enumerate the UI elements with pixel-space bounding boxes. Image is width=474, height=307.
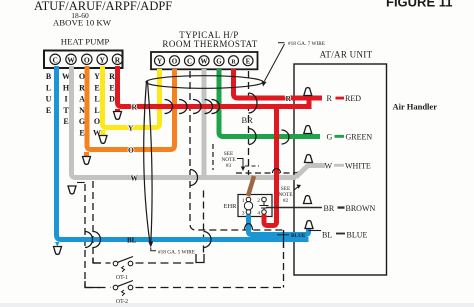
svg-text:L: L <box>94 95 99 104</box>
svg-text:R: R <box>79 83 85 92</box>
svg-text:ROOM THERMOSTAT: ROOM THERMOSTAT <box>162 39 257 49</box>
label #18 GA. 5 WIRE with elbow leader <box>151 248 156 251</box>
svg-text:BL: BL <box>322 230 332 239</box>
svg-text:BLUE: BLUE <box>347 230 368 239</box>
wire: blue from EHR terminal 3 to air handler BL <box>249 215 309 235</box>
connector at blue end <box>54 247 62 255</box>
svg-text:WHITE: WHITE <box>345 161 371 170</box>
dashed OT-2 row wire <box>85 287 111 289</box>
terminal W <box>199 56 209 66</box>
svg-text:3: 3 <box>242 211 245 217</box>
svg-text:O: O <box>172 58 178 66</box>
vertical word WHITE <box>62 72 70 126</box>
svg-text:E: E <box>79 129 84 138</box>
svg-text:2: 2 <box>257 198 260 204</box>
EHR terminal 3 <box>246 210 251 215</box>
dashed bracket for note 3 <box>212 144 214 170</box>
hop arc on green at red branch <box>282 130 290 144</box>
svg-text:E: E <box>109 83 114 92</box>
vertical word YELLOW <box>93 72 101 138</box>
svg-text:E: E <box>246 58 251 66</box>
svg-text:W: W <box>325 161 333 170</box>
solid u-link above OT-1 row <box>196 254 204 263</box>
svg-text:#2: #2 <box>283 198 289 204</box>
svg-text:G: G <box>216 58 222 66</box>
svg-text:R: R <box>109 72 115 81</box>
connector on brown BR row <box>304 196 312 204</box>
svg-text:O: O <box>84 55 90 64</box>
terminal O <box>170 56 180 66</box>
svg-text:Y: Y <box>99 55 105 64</box>
outdoor thermostat OT-1 <box>113 257 133 281</box>
svg-text:Y: Y <box>128 124 134 133</box>
EHR heater element symbol <box>260 202 269 210</box>
svg-text:BR: BR <box>242 115 254 125</box>
wire: red branch down to EHR terminal 4 <box>264 107 277 226</box>
terminal E <box>243 56 253 66</box>
solid corner at OT-2 left <box>85 281 100 288</box>
small dashed segment near note 3 <box>245 165 259 167</box>
dashed field wire from thermostat C <box>190 71 284 230</box>
hop arc of jumper over red branch <box>273 169 281 173</box>
dashed OT-1 row wire <box>93 262 111 264</box>
hop arc of C run over EHR blue riser <box>245 224 253 230</box>
svg-text:E: E <box>63 117 68 126</box>
EHR relay box <box>224 195 273 217</box>
svg-text:R: R <box>132 103 138 112</box>
svg-text:T: T <box>63 106 69 115</box>
thermostat terminal block <box>151 52 258 69</box>
svg-text:H: H <box>63 83 70 92</box>
dashed riser joining OT-2 to C circuit <box>283 230 285 288</box>
svg-text:G: G <box>79 117 85 126</box>
note 2 arrow <box>294 186 300 191</box>
svg-text:O: O <box>94 117 100 126</box>
bundle lens of 5 wires going down <box>144 81 150 243</box>
label #18 GA. 7 WIRE with leader to bundle <box>278 42 285 44</box>
wire: white rise into air handler W <box>296 166 326 178</box>
svg-text:W: W <box>131 174 139 183</box>
svg-text:E: E <box>94 83 99 92</box>
svg-text:R: R <box>231 60 236 66</box>
svg-text:ATUF/ARUF/ARPF/ADPF: ATUF/ARUF/ARPF/ADPF <box>34 0 172 13</box>
svg-text:O: O <box>128 146 134 155</box>
wire: orange from heat pump O to thermostat O <box>87 66 175 150</box>
svg-text:W: W <box>67 55 75 64</box>
svg-text:Air Handler: Air Handler <box>393 102 438 112</box>
heat pump terminal block <box>44 51 123 69</box>
svg-text:R: R <box>115 55 121 64</box>
svg-text:L: L <box>46 83 51 92</box>
hop arc of E wire over green run <box>249 129 257 145</box>
wire: black EHR to BR row <box>266 207 322 209</box>
wire: red stub to connector <box>115 109 120 111</box>
terminal R <box>229 56 239 66</box>
svg-text:BR: BR <box>324 204 335 213</box>
terminal G <box>214 56 224 66</box>
svg-text:C: C <box>187 58 192 66</box>
row label BL - BLUE with leader <box>309 230 322 232</box>
label BLUE printed on blue wire <box>277 234 289 236</box>
svg-text:R: R <box>327 94 333 103</box>
hop arc of C wire over white run <box>190 170 198 186</box>
wire: red from thermostat R to air handler R <box>234 69 323 98</box>
wire: white from thermostat W down <box>202 69 207 176</box>
svg-text:GREEN: GREEN <box>346 133 373 142</box>
terminal C <box>50 54 60 64</box>
svg-text:L: L <box>94 106 99 115</box>
svg-text:O: O <box>79 72 85 81</box>
svg-text:U: U <box>46 95 52 104</box>
svg-text:A: A <box>79 95 85 104</box>
wire: red riser joining R row <box>307 96 312 110</box>
svg-text:#18 GA. 7 WIRE: #18 GA. 7 WIRE <box>288 41 325 47</box>
dashed wire down to OT-1 row <box>92 181 94 263</box>
wire: yellow from heat pump Y to thermostat Y <box>103 66 160 128</box>
hop arc of E wire over red runs <box>249 93 258 113</box>
svg-text:B: B <box>46 72 52 81</box>
svg-text:Y: Y <box>157 58 162 66</box>
svg-text:ABOVE 10 KW: ABOVE 10 KW <box>53 18 112 28</box>
hop arcs over blue bottom run <box>85 232 211 248</box>
wire: orange stub to connector <box>84 152 89 156</box>
dashed wire down from white circuit to OT-1 <box>203 191 205 254</box>
dashed wire down to OT-2 row <box>84 184 86 288</box>
svg-text:EHR: EHR <box>224 203 238 210</box>
note 3 arrow <box>237 159 243 168</box>
svg-text:FIGURE 11: FIGURE 11 <box>386 0 452 10</box>
wire: blue taper to connector <box>55 242 60 247</box>
bracket from white corner to OT-2 dash <box>77 182 85 184</box>
wire: red from heat pump R across to air handler <box>118 66 310 107</box>
svg-text:I: I <box>64 95 67 104</box>
svg-text:R: R <box>286 94 292 103</box>
terminal O <box>82 54 92 64</box>
EHR terminal 4 <box>262 210 267 215</box>
terminal Y <box>97 54 107 64</box>
EHR terminal 2 <box>262 197 267 202</box>
EHR coil <box>244 202 252 210</box>
connector on white W row <box>305 155 313 163</box>
bundle ellipse of 7 thermostat wires <box>146 76 263 89</box>
svg-text:#18 GA. 5 WIRE: #18 GA. 5 WIRE <box>158 249 195 255</box>
wire: brown jumper to EHR terminal 1 <box>248 176 254 196</box>
svg-text:C: C <box>52 55 57 64</box>
wire: green from thermostat G to air handler G <box>219 69 320 137</box>
outdoor thermostat OT-2 <box>113 281 133 305</box>
solid corner at OT-1 left <box>93 258 101 264</box>
terminal W <box>66 54 76 64</box>
EHR terminal 1 <box>246 197 251 202</box>
connector stub below red corner <box>114 112 122 120</box>
connector stub below white corner <box>68 186 76 194</box>
connector on green G row <box>304 126 312 134</box>
terminal Y <box>155 56 165 66</box>
connector on blue BL row <box>305 221 313 229</box>
svg-text:Y: Y <box>94 72 100 81</box>
svg-text:W: W <box>201 58 208 66</box>
terminal C <box>185 56 195 66</box>
svg-text:4: 4 <box>257 211 260 217</box>
terminal R <box>112 54 122 64</box>
vertical word RED <box>109 72 115 104</box>
svg-text:D: D <box>109 95 115 104</box>
vertical word ORANGE <box>79 72 85 138</box>
dashed riser visible over blue run <box>283 230 285 248</box>
connector stub below yellow corner <box>99 136 107 144</box>
wire: yellow stub to connector <box>101 130 106 135</box>
svg-text:1: 1 <box>242 198 245 204</box>
dashed bracket for note 2 <box>277 183 279 203</box>
svg-text:BROWN: BROWN <box>346 204 376 213</box>
svg-text:W: W <box>62 72 70 81</box>
svg-text:BL: BL <box>127 237 137 245</box>
svg-text:E: E <box>46 106 51 115</box>
dashed field wire from thermostat E (brown circuit) <box>248 71 250 175</box>
vertical word BLUE <box>46 72 52 115</box>
svg-text:N: N <box>79 106 85 115</box>
faint scan shadow at bottom edge <box>0 303 474 307</box>
wire: blue from heat pump C along bottom <box>57 66 309 240</box>
svg-text:RED: RED <box>345 94 361 103</box>
connector stub below orange corner <box>83 157 91 165</box>
wire: white from heat pump W down and across <box>72 66 297 178</box>
dashed jumper to W row (note 3 circuit) <box>236 172 294 174</box>
svg-text:BLUE: BLUE <box>291 233 306 239</box>
arrowhead at bundle bottom <box>148 242 153 248</box>
svg-text:#3: #3 <box>226 163 232 169</box>
svg-text:AT/AR UNIT: AT/AR UNIT <box>320 50 373 60</box>
svg-text:HEAT PUMP: HEAT PUMP <box>61 37 110 47</box>
air handler AT/AR unit box <box>294 64 387 275</box>
svg-text:OT-1: OT-1 <box>116 275 128 281</box>
connector on red R row <box>304 88 312 96</box>
crossover hop arcs on red run <box>165 100 220 114</box>
svg-text:G: G <box>327 133 333 142</box>
